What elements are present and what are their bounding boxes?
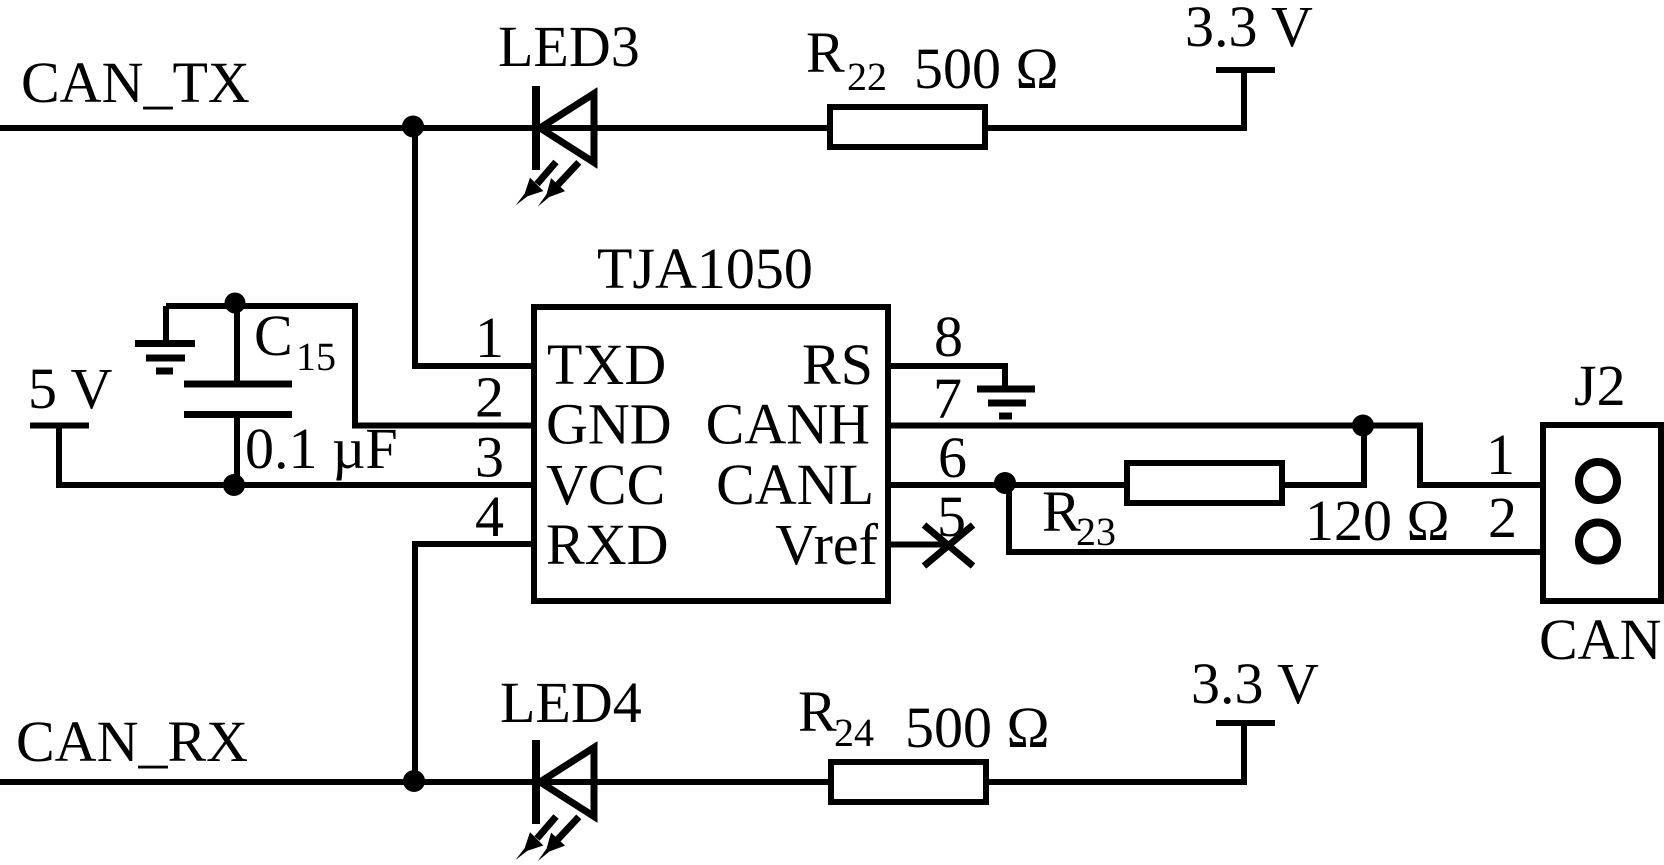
junction node CANH / R23: [1352, 415, 1374, 437]
svg-text:GND: GND: [546, 392, 672, 457]
svg-text:2: 2: [475, 365, 504, 430]
junction node CAN_RX / RXD: [403, 770, 425, 792]
wire RXD pin 4 down to CAN_RX: [415, 544, 534, 782]
J2 pin 1 circle: [1579, 462, 1617, 500]
svg-text:4: 4: [475, 484, 504, 549]
wire CAN_TX horizontal: [0, 125, 1247, 131]
svg-text:TJA1050: TJA1050: [597, 236, 813, 301]
svg-text:7: 7: [933, 366, 962, 431]
junction node CANL: [994, 472, 1016, 494]
junction node CAN_TX / TXD: [402, 116, 424, 138]
svg-text:2: 2: [1488, 485, 1517, 550]
wire R24 to 3.3V rail (bottom): [986, 723, 1244, 782]
capacitor C15: [184, 304, 292, 485]
svg-text:500 Ω: 500 Ω: [914, 36, 1059, 101]
svg-text:CANH: CANH: [706, 392, 870, 457]
svg-text:VCC: VCC: [546, 452, 665, 517]
wire CAN_TX down to pin 1 TXD: [415, 128, 534, 366]
wire CANH pin 7 to J2 pin 1: [888, 426, 1542, 486]
svg-text:TXD: TXD: [547, 332, 666, 397]
svg-text:3.3 V: 3.3 V: [1185, 0, 1313, 59]
wire RS pin 8 to ground: [888, 366, 1005, 386]
svg-text:CAN_TX: CAN_TX: [21, 50, 250, 115]
svg-text:3: 3: [475, 425, 504, 490]
J2 pin 2 circle: [1579, 523, 1617, 561]
svg-text:RS: RS: [802, 332, 873, 397]
svg-text:CANL: CANL: [716, 452, 874, 517]
wire CANL pin 6 to R23: [888, 482, 1127, 488]
svg-text:RXD: RXD: [546, 512, 668, 577]
svg-text:J2: J2: [1574, 353, 1626, 418]
ground symbol (RS pin 8): [977, 389, 1035, 416]
LED3: [516, 86, 595, 207]
svg-text:5 V: 5 V: [28, 356, 112, 421]
svg-text:3.3 V: 3.3 V: [1191, 651, 1319, 716]
wire 5V to VCC pin 3: [59, 426, 534, 486]
wire ground to C15 top / GND pin 2: [166, 306, 534, 426]
svg-text:C: C: [254, 303, 293, 368]
svg-text:R: R: [1042, 479, 1081, 544]
junction node C15 bottom / VCC: [223, 474, 245, 496]
ground symbol (near C15): [135, 306, 195, 371]
wire CAN_RX horizontal: [0, 779, 1247, 785]
wire R23 right up to CANH junction: [1282, 426, 1364, 486]
power symbol 3.3 V (bottom): [1216, 720, 1275, 726]
svg-text:1: 1: [475, 305, 504, 370]
svg-text:Vref: Vref: [775, 512, 878, 577]
svg-text:500 Ω: 500 Ω: [905, 695, 1050, 760]
svg-text:R: R: [806, 20, 845, 85]
wire Vref pin 5 stub: [888, 542, 953, 548]
wire R22 to 3.3V rail (top): [985, 70, 1244, 128]
svg-text:LED4: LED4: [500, 670, 642, 735]
svg-text:6: 6: [938, 425, 967, 490]
resistor R23: [1127, 463, 1282, 503]
resistor R22: [830, 107, 985, 147]
power symbol 3.3 V (top): [1216, 67, 1275, 73]
connector J2 box: [1543, 425, 1661, 601]
resistor R24: [831, 762, 986, 802]
svg-text:CAN: CAN: [1539, 607, 1661, 672]
no-connect X on Vref: [924, 525, 973, 566]
wire CANL junction down to J2 pin 2: [1009, 483, 1542, 552]
svg-text:CAN_RX: CAN_RX: [16, 709, 248, 774]
junction node C15 top: [225, 293, 246, 314]
svg-text:1: 1: [1486, 422, 1515, 487]
svg-text:8: 8: [934, 304, 963, 369]
svg-text:R: R: [798, 679, 837, 744]
svg-text:LED3: LED3: [498, 14, 640, 79]
svg-text:120 Ω: 120 Ω: [1305, 488, 1450, 553]
IC U1 TJA1050 box: [534, 307, 888, 601]
LED4: [516, 740, 595, 861]
svg-text:0.1 µF: 0.1 µF: [245, 416, 398, 481]
